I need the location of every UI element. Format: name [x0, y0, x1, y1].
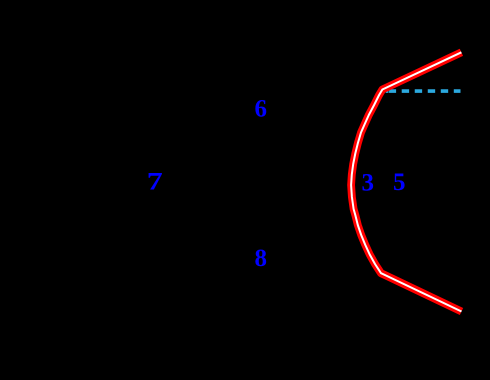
dashed horizontal reference line	[389, 89, 461, 93]
svg-text:6: 6	[255, 95, 268, 122]
svg-text:3: 3	[362, 170, 375, 197]
svg-text:8: 8	[255, 245, 268, 272]
ray path red outer stroke	[351, 52, 461, 311]
ray path white core	[351, 52, 461, 311]
dashed line start fragment under ray	[386, 89, 389, 93]
svg-text:7: 7	[147, 168, 163, 195]
svg-text:5: 5	[393, 169, 406, 196]
